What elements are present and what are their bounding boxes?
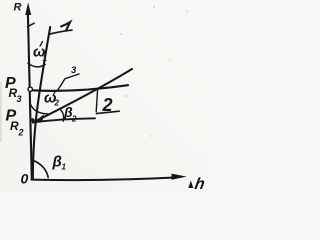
svg-text:2: 2	[102, 95, 113, 115]
svg-text:2: 2	[71, 115, 77, 124]
svg-text:2: 2	[54, 99, 60, 108]
svg-text:1: 1	[43, 54, 48, 63]
svg-text:1: 1	[62, 163, 67, 172]
svg-text:0: 0	[21, 171, 29, 187]
svg-text:3: 3	[71, 65, 77, 76]
svg-text:2: 2	[18, 128, 24, 138]
svg-text:R: R	[14, 2, 22, 14]
svg-text:β: β	[52, 154, 62, 171]
svg-text:3: 3	[17, 94, 22, 104]
